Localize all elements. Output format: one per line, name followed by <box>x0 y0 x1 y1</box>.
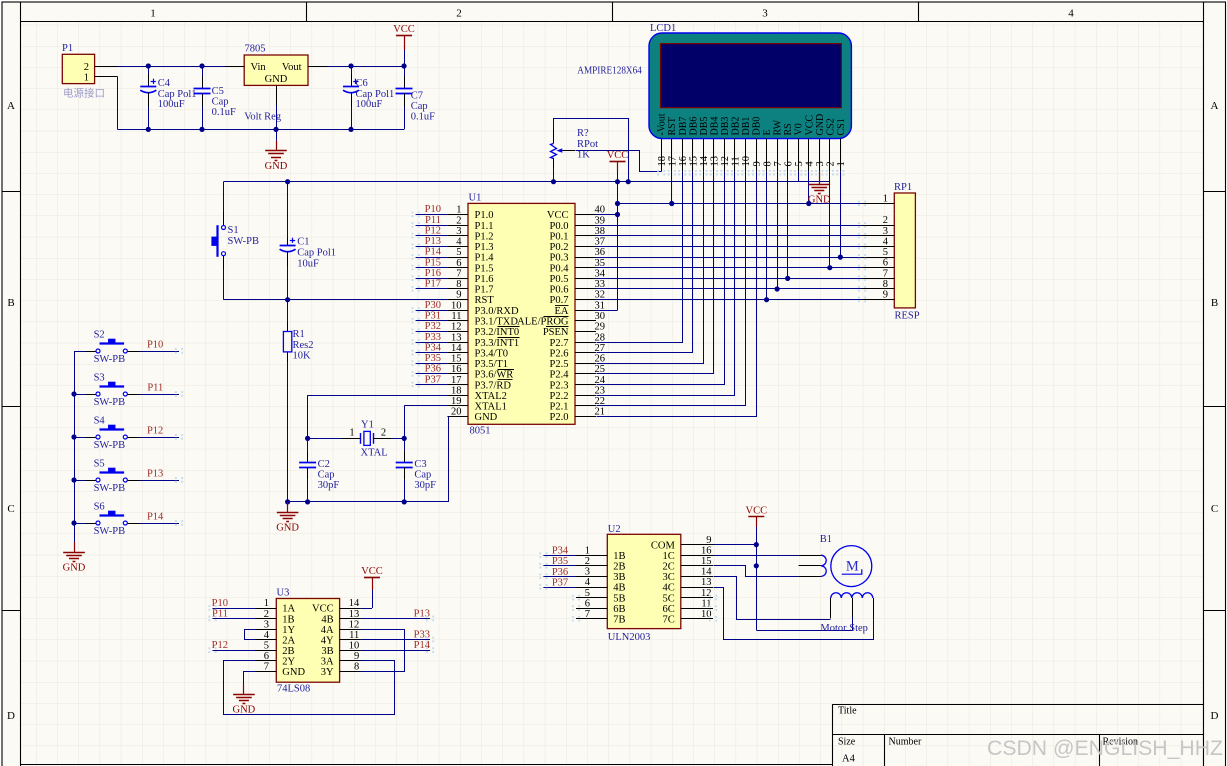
svg-text:P3.1/TXD: P3.1/TXD <box>475 317 519 328</box>
svg-text:9: 9 <box>706 535 711 546</box>
svg-text:Number: Number <box>889 736 922 747</box>
svg-text:GND: GND <box>282 667 305 678</box>
svg-text:8051: 8051 <box>470 426 491 437</box>
svg-text:74LS08: 74LS08 <box>277 684 310 695</box>
svg-text:VCC: VCC <box>804 115 815 136</box>
svg-text:3B: 3B <box>321 646 333 657</box>
wire U2 1C to motor <box>713 555 799 557</box>
svg-text:P13: P13 <box>414 608 430 619</box>
wire VCC to pin40 and EA <box>617 182 619 311</box>
svg-text:SW-PB: SW-PB <box>94 397 126 408</box>
svg-text:9: 9 <box>354 651 359 662</box>
svg-text:EA: EA <box>555 306 569 317</box>
svg-text:2A: 2A <box>282 635 295 646</box>
svg-text:D: D <box>7 710 15 722</box>
junction dots reset <box>285 179 290 184</box>
ground LCD <box>819 174 821 184</box>
junction dots crystal <box>305 436 310 441</box>
svg-text:21: 21 <box>595 407 606 418</box>
svg-text:XTAL1: XTAL1 <box>475 402 507 413</box>
svg-text:4: 4 <box>585 577 591 588</box>
svg-text:6B: 6B <box>613 604 625 615</box>
capacitor C4 <box>148 66 150 74</box>
svg-text:3C: 3C <box>663 572 675 583</box>
svg-text:2: 2 <box>585 556 590 567</box>
svg-text:P33: P33 <box>425 332 441 343</box>
svg-text:7: 7 <box>264 662 269 673</box>
svg-text:CSDN @ENGLISH_HHZ: CSDN @ENGLISH_HHZ <box>987 736 1223 760</box>
svg-text:P10: P10 <box>147 340 163 351</box>
svg-text:9: 9 <box>456 290 461 301</box>
svg-text:7805: 7805 <box>245 44 266 55</box>
svg-text:P1.2: P1.2 <box>475 231 494 242</box>
svg-text:6C: 6C <box>663 604 675 615</box>
svg-text:1: 1 <box>836 161 847 166</box>
svg-text:12: 12 <box>349 619 360 630</box>
svg-text:P31: P31 <box>425 311 441 322</box>
svg-text:6: 6 <box>585 598 590 609</box>
svg-text:30pF: 30pF <box>318 480 340 491</box>
wire RST net <box>224 299 448 301</box>
svg-text:S1: S1 <box>228 225 239 236</box>
connector P1 <box>62 54 94 83</box>
svg-text:P2.6: P2.6 <box>550 348 569 359</box>
svg-text:P12: P12 <box>425 225 441 236</box>
svg-text:19: 19 <box>451 396 462 407</box>
svg-text:RST: RST <box>667 117 678 135</box>
wire P1 pin2 to rail <box>95 66 118 68</box>
svg-text:P10: P10 <box>212 598 228 609</box>
capacitor C2 <box>307 438 309 450</box>
svg-text:ALE/PROG: ALE/PROG <box>517 317 569 328</box>
svg-text:B: B <box>7 297 14 309</box>
svg-text:P0.4: P0.4 <box>550 263 570 274</box>
svg-text:VCC: VCC <box>361 566 383 577</box>
svg-text:P3.5/T1: P3.5/T1 <box>475 359 509 370</box>
svg-text:V0: V0 <box>794 123 805 135</box>
capacitor C3 <box>404 438 406 450</box>
svg-text:A4: A4 <box>842 753 856 764</box>
wire U3 3B P14 <box>361 650 430 652</box>
svg-text:P3.7/RD: P3.7/RD <box>475 380 512 391</box>
svg-text:P1.0: P1.0 <box>475 210 494 221</box>
wire U2 3C to motor <box>714 577 831 620</box>
IC U3 74LS08 <box>276 599 339 683</box>
svg-text:Cap Pol1: Cap Pol1 <box>297 247 336 258</box>
svg-text:RS: RS <box>783 123 794 135</box>
svg-text:26: 26 <box>595 354 606 365</box>
svg-text:P1.4: P1.4 <box>475 253 495 264</box>
svg-text:8: 8 <box>456 279 461 290</box>
svg-text:Cap: Cap <box>212 96 229 107</box>
svg-text:7: 7 <box>456 268 461 279</box>
svg-text:P36: P36 <box>552 567 568 578</box>
svg-text:12: 12 <box>701 588 712 599</box>
wire U3 4B P13 <box>361 618 430 620</box>
svg-text:RESP: RESP <box>895 311 920 322</box>
pin 7805 GND <box>276 85 278 105</box>
svg-text:P1.3: P1.3 <box>475 242 494 253</box>
svg-text:B1: B1 <box>820 534 832 545</box>
svg-text:P14: P14 <box>147 512 164 523</box>
svg-text:P1.5: P1.5 <box>475 263 494 274</box>
svg-text:S3: S3 <box>94 372 105 383</box>
svg-text:5: 5 <box>264 640 269 651</box>
svg-text:P11: P11 <box>425 215 441 226</box>
svg-text:10: 10 <box>349 640 360 651</box>
svg-text:100uF: 100uF <box>356 99 383 110</box>
svg-text:6: 6 <box>883 258 888 269</box>
svg-text:C5: C5 <box>212 86 224 97</box>
junction dots power rail <box>146 63 151 68</box>
svg-text:30pF: 30pF <box>414 480 436 491</box>
svg-text:1: 1 <box>349 427 354 438</box>
svg-text:13: 13 <box>451 332 462 343</box>
svg-text:GND: GND <box>475 412 498 423</box>
svg-text:ULN2003: ULN2003 <box>608 632 651 643</box>
svg-text:-Vout: -Vout <box>657 113 668 135</box>
svg-text:P17: P17 <box>425 279 441 290</box>
svg-text:SW-PB: SW-PB <box>94 440 126 451</box>
wire XTAL1 net <box>404 405 447 407</box>
svg-text:P2.5: P2.5 <box>550 359 569 370</box>
svg-text:17: 17 <box>451 375 462 386</box>
svg-text:8: 8 <box>354 662 359 673</box>
svg-text:D: D <box>1211 710 1219 722</box>
svg-text:1Y: 1Y <box>282 625 295 636</box>
svg-text:10K: 10K <box>293 351 312 362</box>
svg-text:Motor Step: Motor Step <box>820 623 868 634</box>
svg-text:U2: U2 <box>608 524 621 535</box>
svg-text:P11: P11 <box>212 608 228 619</box>
potentiometer R? <box>553 118 555 130</box>
svg-text:P34: P34 <box>425 342 442 353</box>
svg-text:C6: C6 <box>356 78 368 89</box>
svg-text:14: 14 <box>451 343 462 354</box>
svg-text:P13: P13 <box>425 236 441 247</box>
svg-text:VCC: VCC <box>393 24 415 35</box>
wire LCD CS1 <box>840 171 842 257</box>
svg-text:GND: GND <box>233 704 256 715</box>
svg-text:RPot: RPot <box>577 139 598 150</box>
svg-text:2: 2 <box>381 427 386 438</box>
wire U3 2Y-3A <box>224 661 395 715</box>
svg-text:5: 5 <box>883 247 888 258</box>
svg-text:P0.3: P0.3 <box>550 253 569 264</box>
wire pot wiper to Vout <box>576 151 662 172</box>
svg-text:5: 5 <box>794 161 805 166</box>
svg-text:15: 15 <box>701 556 712 567</box>
svg-text:S5: S5 <box>94 458 105 469</box>
svg-text:37: 37 <box>595 237 606 248</box>
svg-text:P2.0: P2.0 <box>550 412 569 423</box>
svg-text:3: 3 <box>762 8 768 20</box>
svg-text:SW-PB: SW-PB <box>94 526 126 537</box>
svg-text:4: 4 <box>804 161 815 167</box>
svg-text:AMPIRE128X64: AMPIRE128X64 <box>577 65 642 76</box>
svg-text:6: 6 <box>456 258 461 269</box>
svg-text:DB1: DB1 <box>741 117 752 136</box>
svg-text:Title: Title <box>838 706 857 717</box>
svg-text:P37: P37 <box>425 374 441 385</box>
svg-text:P0.6: P0.6 <box>550 285 569 296</box>
svg-text:XTAL2: XTAL2 <box>475 391 507 402</box>
resistor R1 <box>287 300 289 322</box>
svg-text:C4: C4 <box>158 78 171 89</box>
svg-text:4: 4 <box>883 236 889 247</box>
svg-text:39: 39 <box>595 215 606 226</box>
svg-text:VCC: VCC <box>607 150 629 161</box>
wire VCC rail to RP1 pin1 <box>618 203 863 205</box>
svg-text:12: 12 <box>451 322 462 333</box>
svg-text:P3.6/WR: P3.6/WR <box>475 370 514 381</box>
svg-text:DB6: DB6 <box>688 117 699 136</box>
svg-text:E: E <box>762 129 773 135</box>
svg-text:P0.7: P0.7 <box>550 295 569 306</box>
svg-text:1K: 1K <box>577 150 590 161</box>
svg-text:C3: C3 <box>414 459 426 470</box>
ground crystal <box>287 502 289 512</box>
LCD pin hotspots <box>836 170 844 176</box>
svg-text:3A: 3A <box>321 656 334 667</box>
svg-text:PSEN: PSEN <box>543 327 569 338</box>
svg-text:S4: S4 <box>94 415 106 426</box>
svg-text:P12: P12 <box>212 640 228 651</box>
svg-text:3B: 3B <box>613 572 625 583</box>
svg-text:CS2: CS2 <box>825 118 836 135</box>
svg-text:11: 11 <box>349 630 359 641</box>
svg-text:P2.3: P2.3 <box>550 380 569 391</box>
svg-text:4B: 4B <box>613 583 625 594</box>
svg-text:Y1: Y1 <box>361 420 374 431</box>
wire U1 GND pin to ground rail <box>288 417 449 502</box>
svg-text:GND: GND <box>265 74 288 85</box>
IC U2 ULN2003 <box>607 534 681 628</box>
svg-text:1: 1 <box>264 598 269 609</box>
crystal Y1 <box>308 438 342 440</box>
svg-text:DB2: DB2 <box>730 117 741 136</box>
svg-text:S6: S6 <box>94 501 105 512</box>
wire P0 bus U1 to RP1 <box>596 225 862 227</box>
svg-text:P0.1: P0.1 <box>550 231 569 242</box>
svg-text:P37: P37 <box>552 577 568 588</box>
svg-text:P34: P34 <box>552 546 569 557</box>
svg-text:电源接口: 电源接口 <box>63 87 105 100</box>
switch S1 <box>223 182 225 212</box>
svg-text:XTAL: XTAL <box>361 448 388 459</box>
svg-text:P1: P1 <box>62 43 73 54</box>
resistor pack RP1 RESP <box>894 193 915 308</box>
svg-text:P1.7: P1.7 <box>475 285 494 296</box>
svg-text:P14: P14 <box>414 640 431 651</box>
svg-text:16: 16 <box>451 364 462 375</box>
svg-text:10: 10 <box>741 156 752 167</box>
svg-text:P1.1: P1.1 <box>475 221 494 232</box>
svg-text:15: 15 <box>689 156 700 167</box>
svg-text:1B: 1B <box>282 614 294 625</box>
title block <box>832 704 1203 766</box>
svg-text:22: 22 <box>595 396 606 407</box>
svg-text:P15: P15 <box>425 257 441 268</box>
wire LCD E <box>766 171 768 299</box>
net labels P10-P17 P30-P37 at U1 <box>416 214 448 216</box>
svg-text:C1: C1 <box>297 236 309 247</box>
svg-text:4Y: 4Y <box>321 635 334 646</box>
svg-text:16: 16 <box>701 545 712 556</box>
svg-text:Size: Size <box>838 736 856 747</box>
svg-text:DB0: DB0 <box>752 117 763 136</box>
wire U3 4A-3Y <box>361 630 405 672</box>
wire LCD RST to VCC rail <box>671 171 673 203</box>
capacitor C1 <box>287 182 289 238</box>
svg-text:COM: COM <box>651 540 676 551</box>
wire LCD RW <box>777 171 779 289</box>
capacitor C5 <box>202 66 204 76</box>
wire U2 4C to motor <box>714 588 874 640</box>
svg-text:9: 9 <box>752 161 763 166</box>
wire VCC rail <box>224 181 830 183</box>
svg-text:SW-PB: SW-PB <box>228 236 260 247</box>
wire LCD RS <box>787 171 789 278</box>
svg-text:14: 14 <box>349 598 360 609</box>
svg-text:17: 17 <box>667 156 678 167</box>
svg-text:S2: S2 <box>94 329 105 340</box>
svg-text:100uF: 100uF <box>158 99 185 110</box>
svg-text:C: C <box>7 503 14 515</box>
ground switches <box>74 542 76 552</box>
svg-text:20: 20 <box>451 407 462 418</box>
svg-text:GND: GND <box>63 562 86 573</box>
svg-text:0.1uF: 0.1uF <box>411 111 435 122</box>
svg-text:P14: P14 <box>425 247 442 258</box>
svg-text:34: 34 <box>595 268 606 279</box>
svg-text:8: 8 <box>883 279 888 290</box>
svg-text:P0.5: P0.5 <box>550 274 569 285</box>
svg-text:4B: 4B <box>321 614 333 625</box>
svg-text:14: 14 <box>701 567 712 578</box>
svg-text:P1.6: P1.6 <box>475 274 494 285</box>
svg-text:1: 1 <box>585 545 590 556</box>
svg-text:RW: RW <box>773 119 784 135</box>
wire XTAL2 net <box>308 395 448 397</box>
svg-text:5: 5 <box>456 247 461 258</box>
IC U1 8051 <box>468 203 575 424</box>
svg-text:P2.4: P2.4 <box>550 370 570 381</box>
svg-text:P32: P32 <box>425 321 441 332</box>
wires P34-P37 to U2 <box>543 555 576 557</box>
svg-text:4: 4 <box>264 630 270 641</box>
svg-text:4: 4 <box>1068 8 1074 20</box>
svg-text:5C: 5C <box>663 593 675 604</box>
svg-text:2C: 2C <box>663 562 675 573</box>
svg-text:P2.1: P2.1 <box>550 402 569 413</box>
junction dots vcc rail <box>551 179 556 184</box>
svg-text:P30: P30 <box>425 300 441 311</box>
svg-text:P3.4/T0: P3.4/T0 <box>475 348 509 359</box>
svg-text:VCC: VCC <box>746 506 768 517</box>
wire LCD V0 <box>798 171 800 181</box>
svg-text:31: 31 <box>595 300 606 311</box>
pin 7805 Vin <box>225 66 244 68</box>
svg-text:13: 13 <box>710 156 721 167</box>
svg-text:Cap: Cap <box>318 470 335 481</box>
svg-text:7C: 7C <box>663 615 675 626</box>
svg-text:2: 2 <box>456 215 461 226</box>
svg-text:P3.3/INT1: P3.3/INT1 <box>475 338 520 349</box>
svg-text:30: 30 <box>595 311 606 322</box>
svg-text:7: 7 <box>585 609 590 620</box>
svg-text:2: 2 <box>84 62 89 73</box>
svg-text:Cap: Cap <box>414 470 431 481</box>
svg-text:11: 11 <box>731 156 742 166</box>
svg-text:P35: P35 <box>425 353 441 364</box>
svg-text:P3.2/INT0: P3.2/INT0 <box>475 327 520 338</box>
svg-text:5B: 5B <box>613 593 625 604</box>
svg-text:6: 6 <box>783 161 794 166</box>
svg-text:SW-PB: SW-PB <box>94 354 126 365</box>
svg-text:6: 6 <box>264 651 269 662</box>
svg-text:1: 1 <box>84 72 89 83</box>
capacitor C7 <box>404 66 406 76</box>
svg-text:U3: U3 <box>277 588 290 599</box>
svg-text:C: C <box>1211 503 1218 515</box>
svg-text:8: 8 <box>762 161 773 166</box>
svg-text:2: 2 <box>456 8 462 20</box>
svg-text:VCC: VCC <box>312 604 334 615</box>
svg-text:P13: P13 <box>147 469 163 480</box>
svg-text:P2.2: P2.2 <box>550 391 569 402</box>
svg-text:25: 25 <box>595 364 606 375</box>
svg-text:18: 18 <box>657 156 668 167</box>
svg-text:P16: P16 <box>425 268 441 279</box>
svg-text:SW-PB: SW-PB <box>94 483 126 494</box>
wire pot top to V0 rail <box>554 118 629 120</box>
svg-text:16: 16 <box>678 156 689 167</box>
wire VCC to COM and motor common <box>756 545 758 631</box>
svg-text:A: A <box>1211 100 1219 112</box>
switches S2-S6 SW-PB <box>74 351 86 353</box>
svg-text:3: 3 <box>815 161 826 166</box>
svg-text:DB5: DB5 <box>699 117 710 136</box>
svg-text:15: 15 <box>451 354 462 365</box>
svg-text:U1: U1 <box>469 193 482 204</box>
wire bottom gnd rail <box>118 129 405 131</box>
svg-text:23: 23 <box>595 385 606 396</box>
svg-text:P2.7: P2.7 <box>550 338 569 349</box>
svg-text:28: 28 <box>595 332 606 343</box>
svg-text:2B: 2B <box>282 646 294 657</box>
svg-text:A: A <box>7 100 15 112</box>
svg-text:1A: 1A <box>282 604 295 615</box>
svg-text:5: 5 <box>585 588 590 599</box>
svg-text:10uF: 10uF <box>297 258 319 269</box>
junction dots P0 bus <box>838 255 843 260</box>
svg-text:3: 3 <box>264 619 269 630</box>
svg-text:7B: 7B <box>613 615 625 626</box>
wire LCD data bus DB7-DB0 to P2 port <box>597 172 683 343</box>
ground U3 <box>243 684 245 694</box>
regulator 7805 U? <box>244 55 308 85</box>
svg-text:P0.2: P0.2 <box>550 242 569 253</box>
svg-text:GND: GND <box>265 161 288 172</box>
svg-text:18: 18 <box>451 385 462 396</box>
svg-text:DB7: DB7 <box>678 117 689 136</box>
svg-text:13: 13 <box>349 609 360 620</box>
svg-text:2B: 2B <box>613 562 625 573</box>
svg-text:R1: R1 <box>293 329 305 340</box>
svg-text:14: 14 <box>699 155 710 166</box>
svg-text:36: 36 <box>595 247 606 258</box>
